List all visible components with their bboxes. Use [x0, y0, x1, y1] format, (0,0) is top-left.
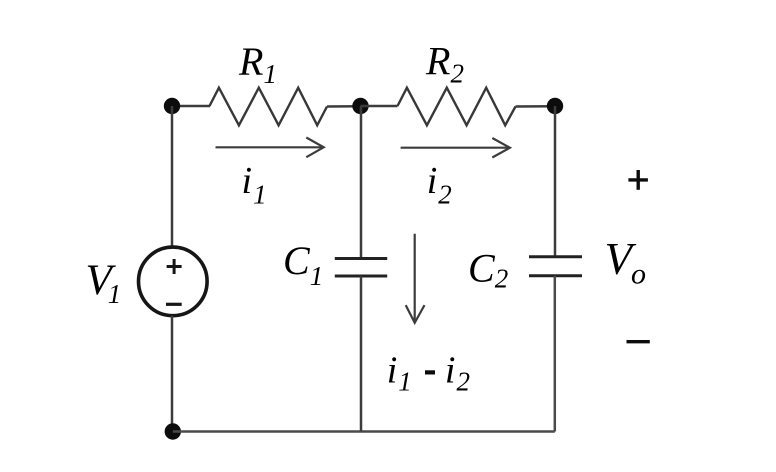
resistor R1 [210, 88, 328, 126]
wire [554, 276, 557, 432]
wire [360, 276, 363, 432]
node D (bottom-left) [165, 423, 181, 439]
voltage source V1 [139, 247, 208, 316]
label - (Vo polarity) [627, 340, 650, 343]
node C (top-right) [547, 98, 563, 114]
current arrow i1-i2 (down) [406, 234, 425, 323]
capacitor C2 [529, 257, 582, 276]
wire [171, 316, 174, 432]
svg-text:i2: i2 [445, 349, 470, 396]
wire [516, 105, 556, 108]
svg-text:V1: V1 [86, 257, 122, 309]
wire [327, 105, 361, 108]
wire (bottom rail) [173, 430, 555, 433]
svg-text:C1: C1 [283, 238, 323, 291]
wire [554, 106, 557, 257]
wire [361, 105, 398, 108]
current arrow i1 [216, 138, 324, 158]
svg-text:i1: i1 [242, 160, 267, 209]
current arrow i2 [401, 138, 510, 158]
svg-text:R1: R1 [238, 39, 277, 89]
wire [172, 105, 210, 108]
node A (top-left) [164, 98, 180, 114]
svg-text:Vo: Vo [605, 234, 647, 291]
label + (Vo polarity) [628, 170, 648, 190]
svg-text:i1: i1 [387, 349, 412, 396]
wire [171, 106, 174, 248]
label i1 - i2 [387, 349, 470, 396]
svg-text:i2: i2 [427, 160, 452, 209]
svg-text:C2: C2 [468, 246, 508, 294]
resistor R2 [398, 88, 516, 126]
node B (middle) [352, 98, 368, 114]
wire [360, 106, 363, 259]
svg-text:R2: R2 [425, 38, 464, 88]
capacitor C1 [335, 259, 387, 277]
